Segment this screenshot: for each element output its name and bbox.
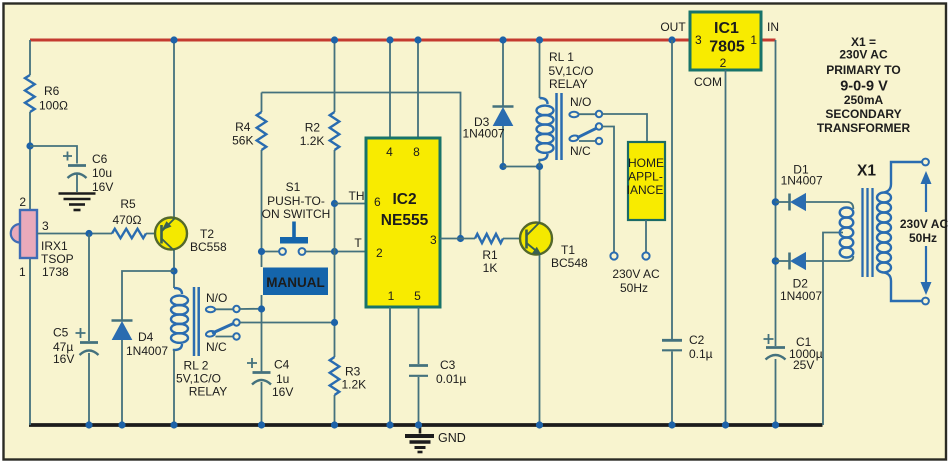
svg-text:N/O: N/O [570, 95, 591, 109]
wire IRX1 pin3 row [37, 233, 155, 235]
svg-text:3: 3 [42, 219, 49, 233]
svg-text:TSOP: TSOP [41, 252, 74, 266]
svg-text:230V AC: 230V AC [612, 267, 660, 281]
diode D2 [776, 253, 854, 304]
svg-text:56K: 56K [232, 133, 253, 147]
resistor R2 [300, 40, 340, 204]
svg-text:BC558: BC558 [190, 240, 227, 254]
svg-text:PUSH-TO-: PUSH-TO- [267, 194, 325, 208]
wire +5V red rail [30, 39, 690, 42]
wire output row [440, 238, 521, 240]
svg-text:1: 1 [750, 33, 757, 47]
svg-text:7805: 7805 [709, 39, 745, 56]
svg-text:X1: X1 [857, 163, 876, 180]
IR sensor IRX1 TSOP1738 [11, 195, 74, 279]
wire pin5 to C3 [418, 307, 420, 425]
wire left branch vertical [29, 40, 31, 425]
node junction OUT [668, 36, 675, 43]
svg-text:50Hz: 50Hz [620, 281, 648, 295]
svg-text:0.01µ: 0.01µ [436, 372, 466, 386]
svg-text:100Ω: 100Ω [39, 99, 68, 113]
diode D1 [776, 163, 854, 211]
svg-text:IRX1: IRX1 [41, 239, 68, 253]
regulator IC1 7805 [660, 12, 779, 89]
svg-text:OUT: OUT [660, 20, 686, 34]
terminal X1 primary top [922, 159, 929, 166]
node junction N/O row [258, 305, 265, 312]
node junction D3/coil [499, 163, 506, 170]
svg-text:50Hz: 50Hz [909, 231, 937, 245]
svg-text:T: T [354, 236, 362, 250]
transistor T2 BC558 [155, 40, 227, 288]
svg-text:PRIMARY TO: PRIMARY TO [826, 63, 900, 77]
ground (earth) below C6 [59, 194, 96, 211]
svg-text:1u: 1u [276, 372, 289, 386]
svg-text:1.2K: 1.2K [300, 134, 325, 148]
label X1 transformer description [817, 35, 911, 135]
node junction TH [331, 200, 338, 207]
resistor R4 [232, 112, 266, 150]
label MANUAL [263, 268, 328, 296]
svg-text:C3: C3 [440, 358, 456, 372]
wire trigger vertical [334, 204, 336, 426]
svg-text:5V,1C/O: 5V,1C/O [549, 64, 594, 78]
wire to C6 [30, 146, 77, 164]
svg-text:R2: R2 [305, 120, 321, 134]
node rail junctions bottom [85, 421, 779, 428]
capacitor C3 [409, 358, 466, 386]
label 230V AC 50Hz primary with arrow [900, 171, 949, 295]
svg-text:25V: 25V [793, 358, 814, 372]
wire TH row [335, 203, 367, 205]
svg-text:1.2K: 1.2K [342, 378, 367, 392]
svg-text:230V AC: 230V AC [839, 48, 888, 62]
svg-text:250mA: 250mA [844, 93, 884, 107]
wire manual to C4 [261, 295, 263, 425]
svg-text:COM: COM [694, 75, 722, 89]
svg-text:T1: T1 [561, 243, 575, 257]
capacitor C2 [662, 333, 713, 361]
relay coil RL2 [171, 287, 227, 425]
svg-text:C4: C4 [274, 358, 290, 372]
terminal 230V AC right [642, 252, 649, 259]
wire R4 feedback vertical [261, 93, 263, 268]
svg-text:RELAY: RELAY [189, 385, 227, 399]
node rail junctions top [170, 36, 543, 43]
svg-text:GND: GND [438, 431, 466, 445]
svg-text:1738: 1738 [42, 265, 69, 279]
svg-text:2: 2 [720, 56, 727, 70]
svg-text:TH: TH [349, 189, 365, 203]
svg-text:C2: C2 [689, 333, 705, 347]
wire ground rail [29, 423, 823, 427]
svg-text:1: 1 [19, 265, 26, 279]
svg-text:MANUAL: MANUAL [266, 275, 325, 290]
resistor R5 [112, 197, 146, 238]
svg-text:SECONDARY: SECONDARY [825, 107, 901, 121]
transformer X1 [840, 162, 922, 301]
node junction pin3/C5 [85, 230, 92, 237]
svg-text:R3: R3 [345, 365, 361, 379]
resistor R6 [25, 75, 68, 113]
svg-text:6: 6 [374, 195, 381, 209]
node junction trigger row [331, 248, 338, 255]
svg-text:ON SWITCH: ON SWITCH [262, 207, 331, 221]
timer IC2 NE555 [366, 40, 440, 307]
svg-text:8: 8 [413, 145, 420, 159]
svg-text:IN: IN [767, 20, 779, 34]
svg-text:5: 5 [414, 289, 421, 303]
svg-text:RL 1: RL 1 [549, 50, 574, 64]
node junction D2 [772, 257, 780, 265]
node junction contact row [331, 319, 338, 326]
wire C5 branch [88, 234, 90, 426]
svg-text:N/C: N/C [570, 144, 591, 158]
svg-text:2: 2 [376, 246, 383, 260]
wire appliance to terminal [645, 220, 647, 252]
svg-text:2: 2 [19, 195, 26, 209]
capacitor C5 [53, 326, 99, 367]
diode D3 [463, 40, 514, 167]
ground GND symbol [405, 425, 466, 452]
terminal 230V AC left [610, 252, 617, 259]
wire center tap to ground [823, 233, 843, 426]
resistor R1 [475, 234, 503, 275]
appliance box [627, 142, 665, 220]
resistor R3 [330, 357, 366, 395]
node junction T2 collector [170, 267, 177, 274]
svg-text:R5: R5 [120, 197, 136, 211]
svg-text:C5: C5 [53, 326, 69, 340]
svg-text:RELAY: RELAY [549, 77, 587, 91]
node junction S1 left [258, 248, 265, 255]
capacitor C4 [247, 358, 293, 400]
relay RL2 contacts [205, 291, 331, 354]
svg-text:5V,1C/O: 5V,1C/O [176, 372, 221, 386]
node junction R6/C6 [26, 142, 33, 149]
svg-text:T2: T2 [200, 227, 214, 241]
capacitor C6 [63, 152, 113, 195]
diode D4 [112, 321, 169, 359]
svg-text:230V AC: 230V AC [900, 217, 949, 231]
svg-text:C6: C6 [92, 152, 108, 166]
svg-text:D4: D4 [138, 330, 154, 344]
wire IN down [775, 40, 777, 425]
svg-text:1N4007: 1N4007 [463, 127, 505, 141]
svg-text:IC2: IC2 [392, 191, 416, 208]
wire red rail IC1 to IN [761, 39, 776, 42]
svg-text:1N4007: 1N4007 [126, 344, 168, 358]
svg-text:IANCE: IANCE [627, 183, 664, 197]
svg-text:IC1: IC1 [714, 20, 739, 37]
svg-text:N/O: N/O [206, 291, 227, 305]
wire COM to ground [725, 70, 727, 425]
svg-text:1N4007: 1N4007 [781, 174, 823, 188]
svg-text:0.1µ: 0.1µ [689, 347, 713, 361]
svg-text:1N4007: 1N4007 [780, 289, 822, 303]
terminal X1 primary bottom [922, 298, 929, 305]
svg-text:R6: R6 [44, 84, 60, 98]
wire pin1 to ground [389, 307, 391, 425]
svg-text:10u: 10u [92, 166, 112, 180]
svg-text:1K: 1K [483, 261, 498, 275]
relay coil RL1 [537, 40, 594, 167]
svg-text:16V: 16V [53, 352, 74, 366]
svg-text:NE555: NE555 [381, 212, 429, 229]
svg-text:16V: 16V [272, 385, 293, 399]
svg-text:N/C: N/C [206, 340, 227, 354]
svg-text:R4: R4 [235, 120, 251, 134]
svg-text:R1: R1 [482, 248, 498, 262]
svg-text:1: 1 [388, 289, 395, 303]
capacitor C1 [764, 334, 823, 372]
svg-text:HOME: HOME [628, 156, 664, 170]
node junction D1 [772, 198, 780, 206]
svg-text:TRANSFORMER: TRANSFORMER [817, 121, 911, 135]
node junction output feedback [457, 235, 464, 242]
relay RL1 contacts [569, 95, 647, 252]
switch S1 push-to-on [262, 180, 367, 255]
svg-text:APPL-: APPL- [628, 170, 663, 184]
wire D3 to T1 collector [503, 166, 540, 168]
wire feedback horizontal from R4 to output [262, 93, 461, 239]
svg-text:4: 4 [386, 145, 393, 159]
svg-text:BC548: BC548 [551, 256, 588, 270]
wire D4 branch [122, 271, 174, 425]
svg-text:470Ω: 470Ω [113, 213, 142, 227]
svg-text:3: 3 [430, 233, 437, 247]
svg-text:S1: S1 [286, 180, 301, 194]
svg-text:16V: 16V [92, 180, 113, 194]
wire OUT down to C2 [671, 40, 673, 425]
svg-text:3: 3 [695, 33, 702, 47]
svg-text:RL 2: RL 2 [184, 359, 209, 373]
transistor T1 BC548 [520, 167, 588, 426]
node junction coil bottom [536, 163, 543, 170]
